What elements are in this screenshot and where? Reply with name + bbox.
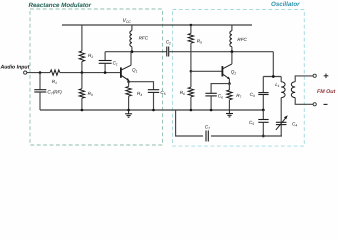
wire: emitter to C5 [129, 82, 154, 90]
resistor R1 [50, 70, 60, 85]
node: audio / C7(RF) junction [39, 71, 42, 74]
resistor R3 [79, 73, 93, 110]
capacitor C7 (series, lower wire) [203, 125, 211, 142]
node: R4 / ground symbol on bus [127, 109, 130, 112]
node: tank midpoint on ground bus [262, 109, 265, 112]
node: C1 on base wire [104, 71, 107, 74]
capacitor C2 (coupling) [166, 40, 171, 57]
svg-text:RFC: RFC [237, 37, 247, 42]
svg-text:FM Out: FM Out [317, 89, 335, 95]
svg-text:RFC: RFC [139, 36, 149, 41]
svg-text:Reactance Modulator: Reactance Modulator [29, 2, 92, 9]
oscillator enclosure (dashed box) [173, 1, 305, 146]
tank top wire [263, 76, 281, 78]
reactance modulator enclosure (dashed box) [29, 2, 163, 145]
wire: C2 to oscillator collector node [169, 51, 274, 53]
resistor R4 [126, 82, 142, 110]
capacitor C5 (tank lower) [249, 110, 269, 136]
inductor L1 (tank / primary) [275, 77, 285, 123]
node: R6 on ground bus [190, 109, 193, 112]
node: Q2 base / R5-R6 junction [190, 70, 193, 73]
node: C6 on ground bus [210, 109, 213, 112]
resistor R5 [188, 24, 202, 72]
node: Q2 emitter junction [228, 82, 231, 85]
wire: R1 to Q1 base [60, 72, 121, 74]
transistor Q1 [121, 52, 138, 82]
RFC choke (oscillator) [230, 25, 248, 52]
plus sign [324, 74, 329, 79]
ground (oscillator) [226, 110, 233, 117]
variable capacitor C4 [276, 115, 297, 136]
minus sign [324, 103, 328, 105]
capacitor C7 (RF) [34, 73, 62, 110]
resistor R7 [227, 84, 242, 110]
wire: collector node to tank top [272, 52, 274, 77]
transistor Q2 [222, 52, 236, 84]
wire: node to Q2 base [191, 70, 223, 72]
collector wire: C1 corner to C2 left plate [105, 51, 167, 53]
svg-text:Oscillator: Oscillator [271, 1, 300, 8]
RFC choke (modulator) [130, 25, 149, 52]
svg-text:Audio Input: Audio Input [0, 65, 30, 71]
audio input terminal [24, 71, 27, 74]
wire: audio terminal to R1 [27, 72, 50, 74]
capacitor C3 (tank upper) [250, 77, 269, 111]
transformer secondary winding [291, 76, 313, 104]
node: tank top [272, 75, 275, 78]
capacitor C6 [205, 93, 223, 110]
wire: emitter junction to C6 [211, 84, 229, 93]
resistor R2 [79, 25, 93, 73]
FM Out - terminal [313, 103, 316, 106]
node: tank chain on lower wire [262, 135, 265, 138]
node: C5 on ground bus [152, 109, 155, 112]
FM Out + terminal [313, 74, 316, 77]
capacitor C5 (emitter bypass) [148, 90, 166, 110]
node: Q1 collector / RFC junction [131, 50, 134, 53]
lower return wire [176, 110, 282, 136]
Vcc supply rail [62, 24, 252, 26]
resistor R6 [180, 71, 194, 110]
ground (modulator) [125, 110, 132, 117]
node: R3 on ground bus [81, 109, 84, 112]
node: Q2 collector / RFC junction [231, 50, 234, 53]
ground bus (bottom rail) [40, 109, 264, 111]
capacitor C1 (collector-base) [99, 52, 118, 73]
node: Q1 emitter junction [127, 80, 130, 83]
node: R2/R3/base wire junction [81, 71, 84, 74]
